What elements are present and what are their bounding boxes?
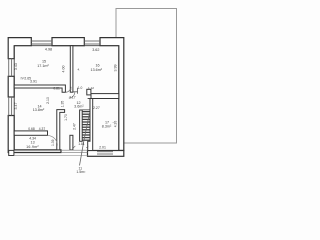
chimney square (9, 150, 14, 155)
wall rooms 15/16 (70, 46, 73, 92)
svg-text:13: 13 (31, 140, 35, 144)
svg-text:8.3m²: 8.3m² (102, 125, 112, 129)
door sill line room 17 (88, 98, 91, 100)
wall rooms 14/13 (14, 131, 47, 135)
stair wall left (80, 110, 83, 141)
window top W2 (84, 41, 100, 44)
svg-text:1.5m²: 1.5m² (76, 170, 86, 174)
door swing hall (69, 92, 75, 98)
svg-text:1.12: 1.12 (88, 86, 94, 90)
svg-text:2.01: 2.01 (99, 145, 106, 149)
svg-text:1.39: 1.39 (51, 139, 55, 146)
wall inner face line top (14, 45, 119, 47)
svg-text:2.47: 2.47 (72, 123, 76, 130)
wall rooms 15/14 with right stub (14, 85, 65, 92)
door leaf room 14 (70, 87, 72, 90)
svg-text:0.81: 0.81 (53, 86, 60, 90)
stair wall right with entrance jamb (88, 99, 93, 151)
wall hall jog and corridor right wall (57, 110, 65, 150)
svg-text:3.62: 3.62 (92, 48, 99, 52)
svg-text:2.27: 2.27 (93, 106, 100, 110)
window left W4 (9, 97, 12, 116)
wall top pier B (52, 38, 84, 46)
window top W1 (31, 41, 52, 44)
svg-text:15: 15 (42, 59, 46, 63)
stair treads (82, 112, 90, 141)
svg-text:17.1m²: 17.1m² (37, 64, 49, 68)
window left W3 (9, 59, 12, 77)
svg-text:4.: 4. (78, 67, 81, 71)
dimension tick right of entrance (86, 146, 88, 148)
svg-text:3.91: 3.91 (30, 80, 37, 84)
svg-text:1.0: 1.0 (78, 86, 83, 90)
dimension tick left of entrance (73, 146, 75, 148)
porch step line (14, 154, 88, 156)
terrace outline (116, 9, 177, 144)
vestibule wall pair (70, 135, 73, 150)
door leaf hall (77, 88, 79, 94)
window bottom W5 (97, 152, 113, 154)
stair leader line (80, 113, 90, 166)
door swing room 13 (48, 136, 58, 146)
wall rooms 16/17 (91, 94, 119, 99)
svg-text:13.6m²: 13.6m² (91, 68, 103, 72)
svg-text:1.35: 1.35 (60, 101, 64, 108)
wall end tick room 15/16 (73, 91, 78, 93)
svg-text:4.37: 4.37 (39, 127, 46, 131)
wall top-left corner pier (8, 38, 31, 59)
svg-text:1.81: 1.81 (78, 142, 85, 146)
wall left pier 3 and bottom-left wall (8, 116, 61, 153)
svg-text:3.6m²: 3.6m² (74, 104, 84, 108)
svg-text:4.98: 4.98 (45, 48, 52, 52)
svg-text:0.68: 0.68 (28, 127, 35, 131)
svg-text:3.43: 3.43 (14, 63, 18, 70)
wall bottom-right block (88, 151, 124, 157)
svg-text:1.70: 1.70 (64, 114, 68, 121)
svg-text:4.00: 4.00 (62, 66, 66, 73)
door jamb room 17 (87, 89, 91, 95)
stair landing line (82, 109, 90, 111)
wall left pier 2 (8, 76, 14, 97)
svg-text:3.99: 3.99 (114, 65, 118, 72)
door swing room 14 (65, 87, 71, 92)
svg-text:13.8m²: 13.8m² (33, 108, 45, 112)
svg-text:3.47: 3.47 (14, 103, 18, 110)
entrance threshold lines (61, 149, 88, 151)
svg-text:2.17: 2.17 (69, 95, 76, 99)
wall inner face line left (13, 46, 15, 150)
svg-text:16: 16 (95, 64, 99, 68)
svg-text:4.30: 4.30 (114, 121, 118, 128)
wall top-right corner and right wall (100, 38, 124, 151)
svg-text:2.10: 2.10 (46, 97, 50, 104)
svg-text:16.9m²: 16.9m² (26, 145, 39, 149)
